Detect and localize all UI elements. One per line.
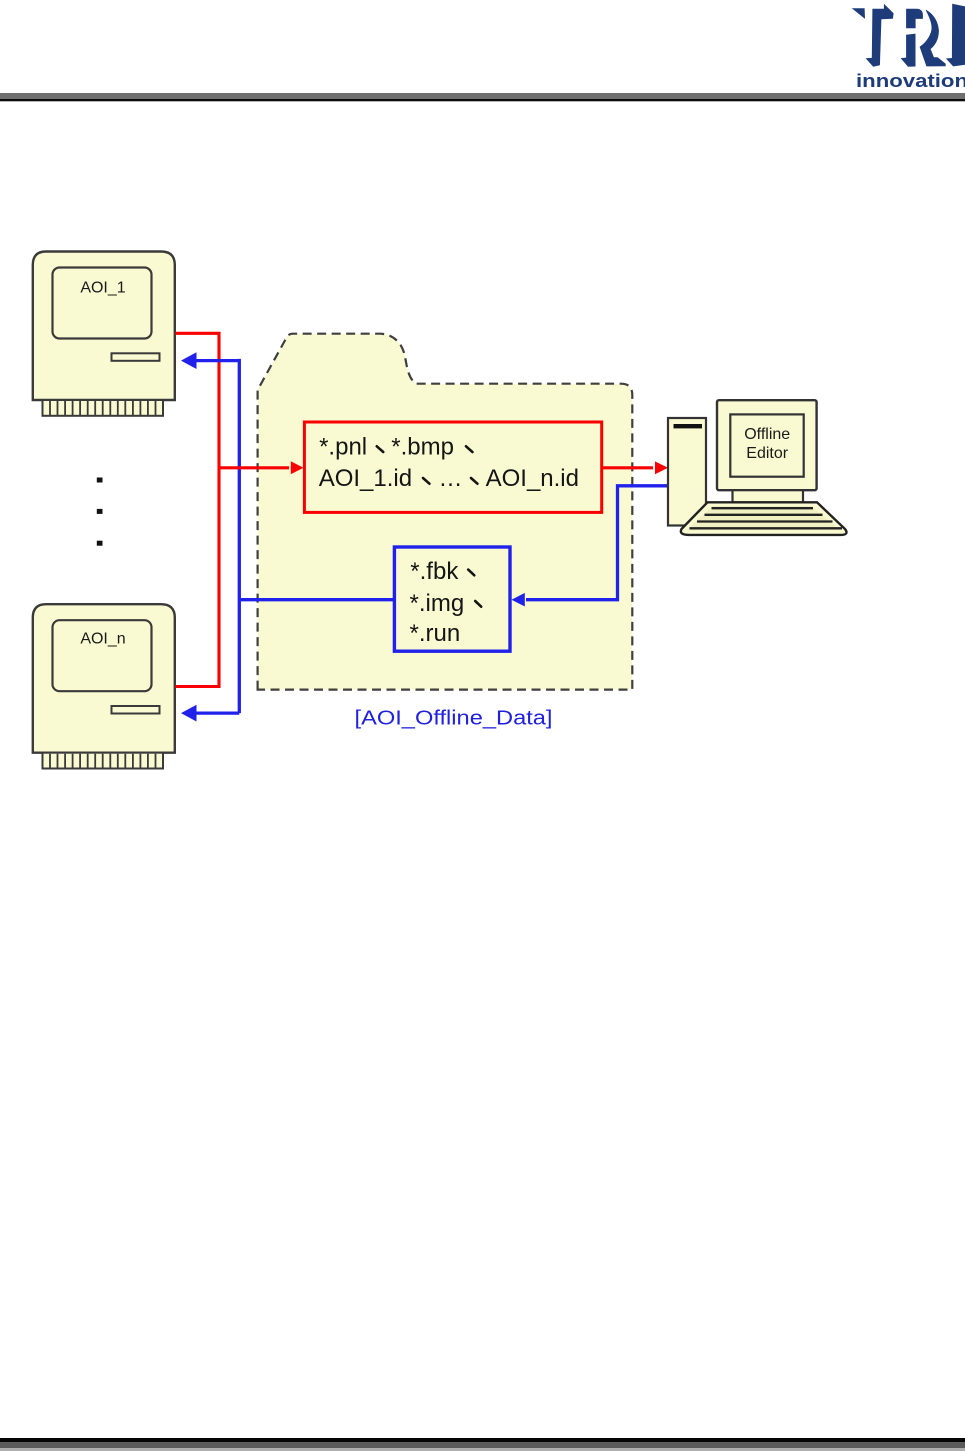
keyboard key area shade [686, 506, 840, 531]
workstation keyboard [681, 502, 847, 535]
label blue box lines [410, 558, 465, 647]
logo TRI letter R bowl and leg [920, 10, 946, 67]
svg-text:innovation: innovation [856, 71, 965, 91]
tick marks red box [377, 446, 478, 483]
svg-text:Editor: Editor [746, 445, 788, 462]
arrowhead blue into blue box [512, 593, 525, 607]
wire blue editor to blue box [526, 486, 668, 600]
svg-text:[AOI_Offline_Data]: [AOI_Offline_Data] [355, 706, 553, 729]
arrowhead red into editor tower [655, 461, 668, 474]
wire red from AOI_1 and AOI_n to junction [176, 333, 220, 686]
svg-text:AOI_1.id: AOI_1.id [319, 465, 412, 492]
arrowhead blue into AOI_n [181, 705, 197, 722]
header rule black [0, 99, 965, 101]
workstation tower stripe [674, 424, 703, 428]
footer rule black [0, 1438, 965, 1442]
wire red from red box to editor [602, 466, 653, 469]
svg-text:AOI_n.id: AOI_n.id [486, 465, 579, 492]
computer AOI_n [33, 604, 175, 768]
svg-text:AOI_1: AOI_1 [80, 280, 125, 297]
box blue download files [394, 547, 510, 651]
workstation monitor [717, 400, 817, 490]
logo TRI letter T flag [852, 8, 865, 19]
footer rule dark gray [0, 1442, 965, 1448]
workstation tower [668, 418, 706, 526]
logo TRI letter R stem lower [901, 34, 916, 67]
svg-text:*.bmp: *.bmp [391, 434, 454, 461]
wire red junction to red box [218, 466, 290, 469]
keyboard key rows [690, 508, 843, 528]
folder AOI_Offline_Data [258, 334, 633, 690]
ellipsis dots [97, 478, 103, 483]
logo TRI letter R stem upper [906, 9, 923, 29]
svg-text:*.img: *.img [410, 590, 465, 617]
footer rule light gray [0, 1448, 965, 1451]
svg-text:Offline: Offline [744, 426, 790, 443]
label red box line1 [319, 434, 579, 493]
arrowhead red into red box [291, 461, 304, 474]
svg-text:*.run: *.run [410, 620, 461, 647]
logo TRI letter I [946, 4, 965, 67]
box red upload files [304, 422, 601, 512]
wire blue from blue box to computers [193, 359, 395, 713]
tick marks blue box [468, 570, 481, 607]
svg-text:…: … [439, 465, 463, 492]
header rule gray [0, 93, 965, 99]
arrowhead blue into AOI_1 [181, 352, 197, 369]
logo TRI letter T [866, 4, 894, 67]
svg-text:AOI_n: AOI_n [80, 631, 125, 648]
workstation screen [730, 414, 803, 476]
workstation stand [733, 490, 804, 502]
computer AOI_1 [33, 252, 175, 416]
svg-text:*.fbk: *.fbk [410, 558, 459, 585]
svg-text:*.pnl: *.pnl [319, 434, 367, 461]
